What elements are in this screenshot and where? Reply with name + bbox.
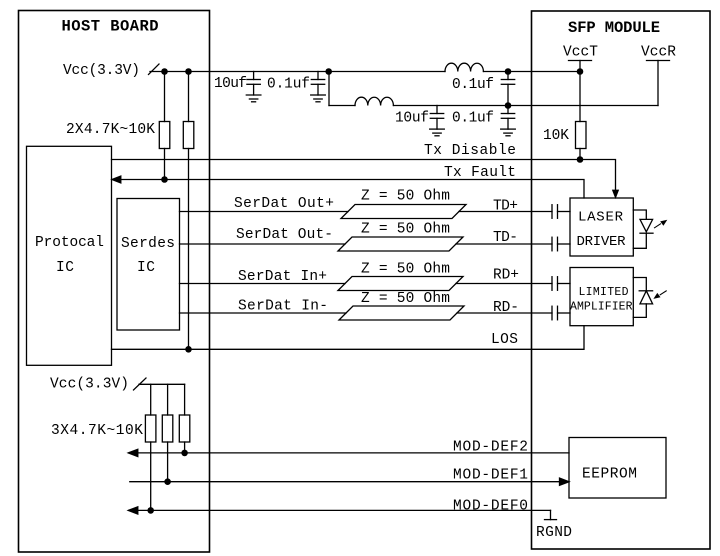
wire Vcc rail host top (right of L1): [484, 71, 581, 73]
svg-text:LOS: LOS: [491, 332, 518, 348]
ground for C4: [430, 129, 445, 136]
svg-text:MOD-DEF2: MOD-DEF2: [453, 440, 528, 456]
svg-text:Vcc(3.3V): Vcc(3.3V): [50, 377, 129, 393]
node R5 / MOD-DEF1: [164, 478, 171, 485]
svg-text:Tx Fault: Tx Fault: [444, 165, 516, 181]
transmission line Z3: [338, 277, 463, 291]
SFP module outline: [532, 11, 711, 549]
svg-text:10K: 10K: [543, 128, 569, 144]
svg-text:Z = 50 Ohm: Z = 50 Ohm: [361, 189, 450, 205]
ground for C2: [311, 95, 326, 102]
wire Tx Disable: [112, 160, 616, 191]
wire LOS: [112, 326, 585, 350]
node R4 / MOD-DEF0: [147, 507, 154, 514]
svg-text:0.1uf: 0.1uf: [452, 77, 494, 93]
arrow MOD-DEF2 left: [128, 449, 138, 456]
capacitor C9 RD- coupling: [552, 306, 570, 320]
svg-text:IC: IC: [56, 260, 74, 276]
svg-text:RGND: RGND: [536, 525, 572, 541]
svg-text:DRIVER: DRIVER: [577, 234, 627, 250]
resistor R1 host pullup (Tx Fault): [159, 72, 170, 180]
svg-text:0.1uf: 0.1uf: [452, 111, 494, 127]
node C3 bottom: [505, 102, 512, 109]
ground for C5: [501, 129, 516, 136]
light receive arrow: [653, 291, 666, 299]
svg-text:Z = 50 Ohm: Z = 50 Ohm: [361, 262, 450, 278]
inductor L2 on lower rail: [355, 97, 393, 105]
capacitor C7 TD- coupling: [552, 237, 570, 251]
wire TD- left: [180, 243, 346, 245]
node R6 / MOD-DEF2: [181, 450, 188, 457]
svg-text:10uf: 10uf: [395, 111, 429, 127]
ground for C1: [246, 95, 261, 102]
svg-text:EEPROM: EEPROM: [582, 467, 637, 483]
svg-text:MOD-DEF0: MOD-DEF0: [453, 499, 528, 515]
svg-text:Serdes: Serdes: [121, 236, 175, 252]
capacitor C8 RD+ coupling: [552, 277, 570, 291]
svg-text:RD-: RD-: [493, 300, 519, 316]
wire TD- right: [456, 243, 552, 245]
node 10K / Tx Disable: [577, 156, 584, 163]
svg-text:VccT: VccT: [563, 45, 598, 61]
svg-text:VccR: VccR: [641, 45, 676, 61]
wire TD+ right: [459, 211, 552, 213]
VccT supply symbol: [569, 61, 592, 72]
RGND symbol: [545, 510, 557, 519]
wire MOD-DEF2: [129, 452, 569, 454]
transmission line Z1: [341, 205, 466, 219]
wire Tx Fault: [121, 180, 584, 199]
wire RD+ right: [456, 283, 552, 285]
svg-text:SerDat Out-: SerDat Out-: [236, 227, 333, 243]
svg-text:SerDat Out+: SerDat Out+: [234, 196, 334, 212]
node Vcc-R1: [161, 68, 168, 75]
resistor R3 10K pullup in SFP: [576, 72, 587, 160]
wire lower filter rail (right of L2): [394, 105, 659, 107]
resistor R2 host pullup (LOS): [183, 72, 194, 350]
wire TD+ left: [180, 211, 349, 213]
svg-text:MOD-DEF1: MOD-DEF1: [453, 468, 528, 484]
inductor L1 on top rail: [445, 63, 483, 71]
host board outline: [19, 11, 210, 553]
arrow MOD-DEF1 into EEPROM: [560, 478, 570, 485]
Serdes IC box: [117, 199, 180, 331]
svg-text:Z = 50 Ohm: Z = 50 Ohm: [361, 222, 450, 238]
transmission line Z2: [338, 237, 463, 251]
svg-text:10uf: 10uf: [214, 76, 247, 92]
VccR supply symbol: [647, 61, 670, 106]
node R1 / Tx Fault: [161, 176, 168, 183]
svg-text:TD+: TD+: [493, 199, 518, 215]
wire RD- left: [180, 312, 347, 314]
wire Vcc rail host top (left of L1): [150, 71, 445, 73]
laser driver box: [570, 198, 633, 256]
svg-text:2X4.7K~10K: 2X4.7K~10K: [66, 122, 155, 138]
svg-text:LASER: LASER: [578, 210, 624, 226]
svg-text:AMPLIFIER: AMPLIFIER: [570, 301, 633, 314]
svg-text:LIMITED: LIMITED: [579, 286, 629, 299]
LED symbol (transmit): [633, 210, 653, 248]
wire RD+ left: [180, 283, 346, 285]
svg-text:Protocal: Protocal: [35, 235, 104, 251]
wire RD- right: [457, 312, 552, 314]
resistor R6 (MOD-DEF2 pullup): [179, 384, 190, 453]
resistor R5 (MOD-DEF1 pullup): [162, 384, 173, 481]
capacitor C3 0.1uf series between rails: [501, 72, 514, 106]
svg-text:Tx Disable: Tx Disable: [424, 143, 516, 159]
capacitor C1 10uf: [247, 72, 260, 96]
Protocal IC box: [27, 146, 112, 365]
svg-text:Vcc(3.3V): Vcc(3.3V): [63, 63, 140, 79]
wire branch down from Vcc rail to lower filter rail: [328, 72, 330, 106]
node Vcc-R2: [185, 68, 192, 75]
svg-text:3X4.7K~10K: 3X4.7K~10K: [51, 423, 143, 439]
svg-text:SerDat In+: SerDat In+: [238, 269, 327, 285]
node R2 / LOS: [185, 346, 192, 353]
svg-text:Z = 50 Ohm: Z = 50 Ohm: [361, 291, 450, 307]
capacitor C6 TD+ coupling: [552, 205, 570, 219]
node C3 top: [505, 68, 512, 75]
transmission line Z4: [339, 306, 464, 320]
Vcc power tap slash host bottom: [134, 378, 147, 390]
wire MOD-DEF0: [129, 509, 551, 511]
arrow Tx Disable into laser driver: [613, 190, 618, 197]
wire lower filter rail (left of L2): [329, 105, 355, 107]
limiting amplifier box: [570, 268, 633, 326]
resistor R4 (MOD-DEF0 pullup): [145, 384, 156, 510]
svg-text:0.1uf: 0.1uf: [267, 77, 310, 93]
wire Vcc rail host bottom: [139, 383, 185, 385]
arrow MOD-DEF0 left: [128, 507, 138, 514]
node rail branch: [325, 68, 332, 75]
wire MOD-DEF1: [130, 481, 560, 483]
Vcc power tap slash host top: [149, 64, 160, 75]
svg-text:HOST BOARD: HOST BOARD: [62, 18, 159, 36]
photodiode symbol (receive): [633, 278, 652, 318]
svg-text:TD-: TD-: [493, 230, 518, 246]
capacitor C2 0.1uf: [311, 72, 324, 96]
svg-text:IC: IC: [137, 260, 155, 276]
light emission arrow: [655, 220, 668, 228]
capacitor C4 10uf on lower rail: [430, 106, 443, 130]
svg-text:SerDat In-: SerDat In-: [238, 299, 328, 315]
svg-text:SFP MODULE: SFP MODULE: [568, 19, 660, 37]
arrow Tx Fault into Protocal IC: [112, 176, 121, 183]
capacitor C5 0.1uf on lower rail: [501, 106, 514, 130]
svg-text:RD+: RD+: [493, 268, 519, 284]
EEPROM box: [569, 438, 666, 499]
node VccT junction: [577, 68, 584, 75]
